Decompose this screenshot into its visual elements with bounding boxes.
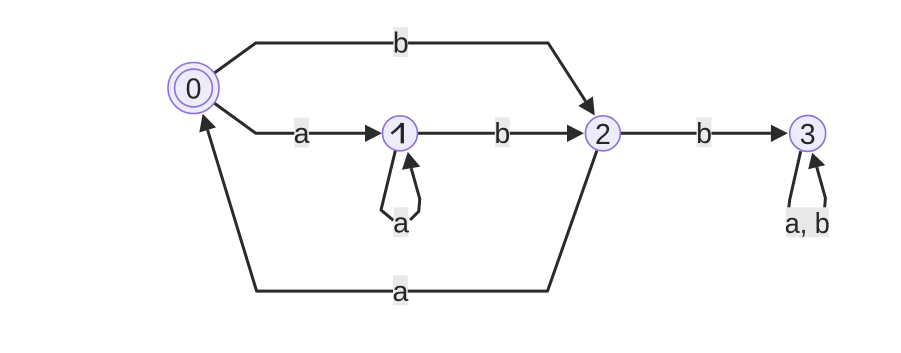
arrowhead of self loop into state 3: [808, 153, 825, 170]
self loop on state 3, left side: [789, 151, 801, 208]
arrowhead into state 2: [567, 125, 584, 142]
self loop on state 3, right side: [817, 167, 826, 208]
state 1: [383, 116, 418, 151]
edge 0 to 2, transition b (top path): [214, 43, 585, 101]
edge 0 to 1, transition a: [214, 103, 365, 133]
edge 2 to 3, transition b: [620, 132, 771, 135]
svg-text:3: 3: [800, 119, 816, 151]
arrowhead of self loop into state 1: [402, 152, 420, 170]
svg-text:b: b: [696, 118, 712, 150]
state 3: [790, 115, 826, 151]
arrowhead into state 0: [199, 114, 216, 133]
svg-text:a: a: [294, 118, 310, 150]
self loop on state 1, left side: [381, 151, 395, 221]
svg-text:b: b: [393, 28, 409, 60]
arrowhead into state 3: [771, 125, 788, 142]
svg-text:a: a: [392, 276, 408, 308]
self loop on state 1, right side: [410, 168, 420, 220]
edge 1 to 2, transition b: [418, 132, 568, 135]
svg-text:a: a: [393, 208, 409, 240]
label a on edge 0-1: [294, 118, 309, 148]
svg-text:2: 2: [595, 119, 611, 151]
edge 2 to 0, transition a (bottom path): [208, 130, 597, 291]
label a on self loop of state 1: [394, 207, 409, 237]
arrowhead into state 2 (top): [578, 97, 595, 116]
svg-text:0: 0: [186, 74, 202, 106]
label b on edge 0-2: [393, 27, 408, 57]
arrowhead into state 1: [365, 125, 382, 142]
svg-text:b: b: [494, 118, 510, 150]
label a, b on self loop of state 3: [786, 207, 829, 237]
label a on edge 2-0: [393, 275, 408, 305]
label b on edge 2-3: [697, 117, 712, 147]
state 2: [585, 116, 620, 151]
svg-text:a, b: a, b: [785, 208, 830, 240]
state 0 (accepting state, double circle): [168, 63, 219, 114]
label b on edge 1-2: [495, 117, 510, 147]
